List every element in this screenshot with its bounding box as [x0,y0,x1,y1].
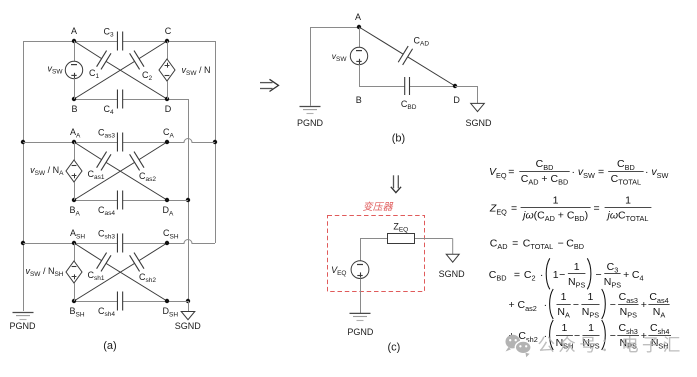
wire AA to source [74,142,76,160]
svg-text:SGND: SGND [175,321,202,331]
svg-text:(c): (c) [387,342,400,354]
svg-text:A: A [355,12,361,22]
svg-text:−: − [610,299,616,311]
node A [72,39,76,43]
node B [72,97,76,101]
capacitor CAD [398,46,408,62]
svg-text:1: 1 [562,322,568,334]
implies arrow right [260,82,273,84]
voltage source VEQ [351,261,369,279]
wire B-D bottom [74,99,117,101]
svg-text:·: · [540,269,544,281]
capacitor CBD [404,77,406,95]
wire source vSW to B [74,79,76,99]
wire VEQ to ZEQ [360,238,387,240]
dependent source vSW/NA [66,160,82,182]
svg-text:+: + [509,299,515,311]
ground PGND (a) [13,312,34,314]
svg-text:1: 1 [625,195,631,207]
capacitor Cas3 [116,133,118,152]
node A (b) [357,25,361,29]
svg-text:1: 1 [561,291,567,303]
capacitor Cas1 [97,152,107,168]
capacitor Csh4 [116,292,118,311]
svg-text:PGND: PGND [297,118,324,128]
svg-text:公众号：电子汇: 公众号：电子汇 [538,335,684,355]
node ASH [72,241,76,245]
svg-text:(a): (a) [103,340,116,352]
svg-text:SGND: SGND [439,269,466,279]
watermark wechat icon [506,335,532,357]
svg-text:+: + [623,269,629,281]
capacitor C1 [97,51,107,67]
svg-text:1: 1 [553,269,559,281]
wire C_A to outer rail with hop [167,139,215,143]
svg-text:A: A [71,26,77,36]
svg-text:−: − [558,237,564,249]
capacitor C2 [130,53,140,69]
svg-text:−: − [559,269,565,281]
capacitor Csh2 [130,255,140,271]
node DSH [165,299,169,303]
junction left rail / A_A branch [21,140,25,144]
wire C to outer right rail [167,41,215,43]
capacitor C3 [116,32,118,51]
svg-text:+: + [641,299,647,311]
svg-text:=: = [514,269,520,281]
svg-text:1: 1 [553,195,559,207]
inner right rail wire (SGND net) [188,99,190,301]
svg-text:PGND: PGND [347,327,374,337]
node CSH [165,241,169,245]
svg-text:C: C [165,26,172,36]
wire diagonal AA-DA [74,142,102,160]
ground PGND (c) [350,312,371,314]
svg-text:(b): (b) [392,133,405,145]
svg-text:变压器: 变压器 [363,201,394,213]
wire source to BA [74,182,76,200]
capacitor Cas2 [130,154,140,170]
wire diagonal A-D [74,41,102,59]
wire BSH-DSH bottom [74,301,117,303]
wire ASH to source [74,243,76,261]
wire A to left rail [23,41,74,43]
ground SGND (b) [471,103,485,111]
wire left rail to node A_A [23,142,74,144]
svg-text:=: = [508,166,514,178]
wire A-C top [74,41,117,43]
capacitor Cas4 [116,191,118,210]
junction outer rail / C_A branch [213,140,217,144]
svg-text:=: = [594,203,600,215]
svg-text:B: B [71,104,77,114]
left rail wire (PGND net) [23,41,25,311]
node BSH [72,299,76,303]
wire PGND riser to A (b) [310,27,359,29]
wire D_A to inner rail [167,200,188,202]
svg-text:SGND: SGND [465,118,492,128]
wire D_SH to inner rail [167,301,188,303]
svg-text:D: D [165,104,172,114]
outer right rail wire [215,41,217,243]
svg-text:=: = [512,237,518,249]
wire A to source vSW [74,41,76,61]
junction inner rail / D_A branch [186,198,190,202]
wire C_SH to outer rail with hop [167,240,215,244]
capacitor Csh1 [97,253,107,269]
wire BA-DA bottom [74,200,117,202]
wire VEQ to PGND (c) [360,279,362,314]
svg-text:=: = [511,203,517,215]
capacitor C4 [116,90,118,109]
wire B-D with capacitor CBD [359,86,405,88]
node AA [72,140,76,144]
implies arrow down [393,175,395,188]
wire source to B (b) [359,65,361,86]
voltage source vSW [65,61,82,78]
node D (b) [453,84,457,88]
svg-text:−: − [573,299,579,311]
dependent source vSW/NSH [66,261,82,283]
svg-text:PGND: PGND [9,321,36,331]
wire ASH-CSH top [74,243,117,245]
wire source vSW/N to D [167,81,169,99]
svg-text:B: B [356,95,362,105]
svg-text:1: 1 [588,291,594,303]
ground SGND (a) [181,312,195,320]
wire to SGND (a) [188,301,190,312]
wire D to SGND (b) [455,86,478,88]
svg-text:D: D [453,95,460,105]
wire diagonal BA-CA [74,162,135,200]
node C [165,39,169,43]
wire left rail to node A_SH [23,243,74,245]
node D [165,97,169,101]
node DA [165,198,169,202]
wire diagonal A-D with capacitor CAD [359,27,403,54]
wire AA-CA top [74,142,117,144]
node BA [72,198,76,202]
wire diagonal ASH-DSH [74,243,102,261]
svg-text:·: · [544,299,548,311]
voltage source vSW (b) [350,47,367,64]
svg-text:−: − [596,269,602,281]
svg-text:1: 1 [588,322,594,334]
svg-text:=: = [598,166,604,178]
dependent source vSW/N [159,59,175,81]
svg-text:1: 1 [574,261,580,273]
wire C to source vSW/N [167,41,169,59]
wire D to inner right rail [167,99,188,101]
ground SGND (c) [446,254,459,262]
wire A to source vSW (b) [359,27,361,47]
ground PGND (b) [300,106,321,108]
wire ZEQ to SGND (c) [415,238,453,240]
impedance ZEQ [388,234,415,244]
wire diagonal B-C [74,61,135,99]
junction left rail / A_SH branch [21,241,25,245]
junction inner rail / D_SH / SGND [186,299,190,303]
wire diagonal BSH-CSH [74,263,135,301]
transformer boundary box [328,216,425,292]
capacitor Csh3 [116,234,118,253]
node CA [165,140,169,144]
wire source to BSH [74,283,76,301]
